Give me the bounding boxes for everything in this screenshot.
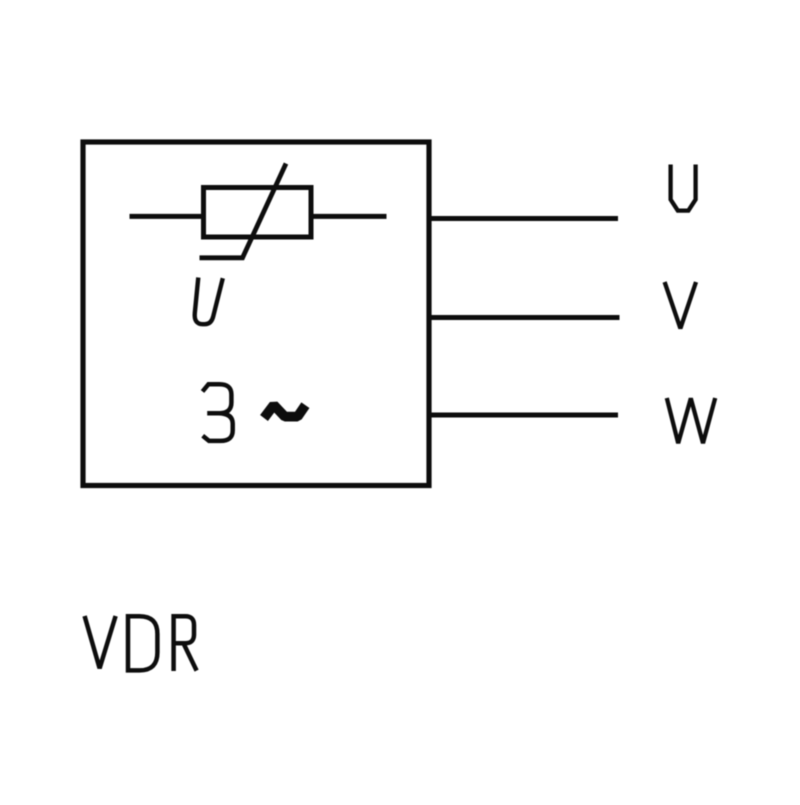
label VDR: V bbox=[85, 616, 116, 668]
varistor RV1 body bbox=[204, 188, 312, 238]
terminal label V bbox=[665, 282, 696, 328]
wire (left lead of varistor) bbox=[130, 214, 204, 219]
label U (varistor voltage, italic) bbox=[195, 278, 223, 325]
wire W bbox=[431, 413, 618, 418]
varistor RV1 diagonal stroke with foot bbox=[200, 164, 287, 258]
wire U bbox=[431, 216, 618, 221]
label ~ (AC tilde) bbox=[264, 405, 305, 418]
wire (right lead of varistor) bbox=[311, 214, 387, 219]
enclosure box U1 bbox=[83, 142, 429, 486]
terminal label W bbox=[667, 398, 715, 443]
label 3 (three-phase) bbox=[203, 384, 233, 441]
terminal label U bbox=[671, 165, 696, 211]
label VDR: R bbox=[174, 616, 197, 671]
wire V bbox=[431, 315, 620, 320]
label VDR: D bbox=[128, 616, 157, 670]
